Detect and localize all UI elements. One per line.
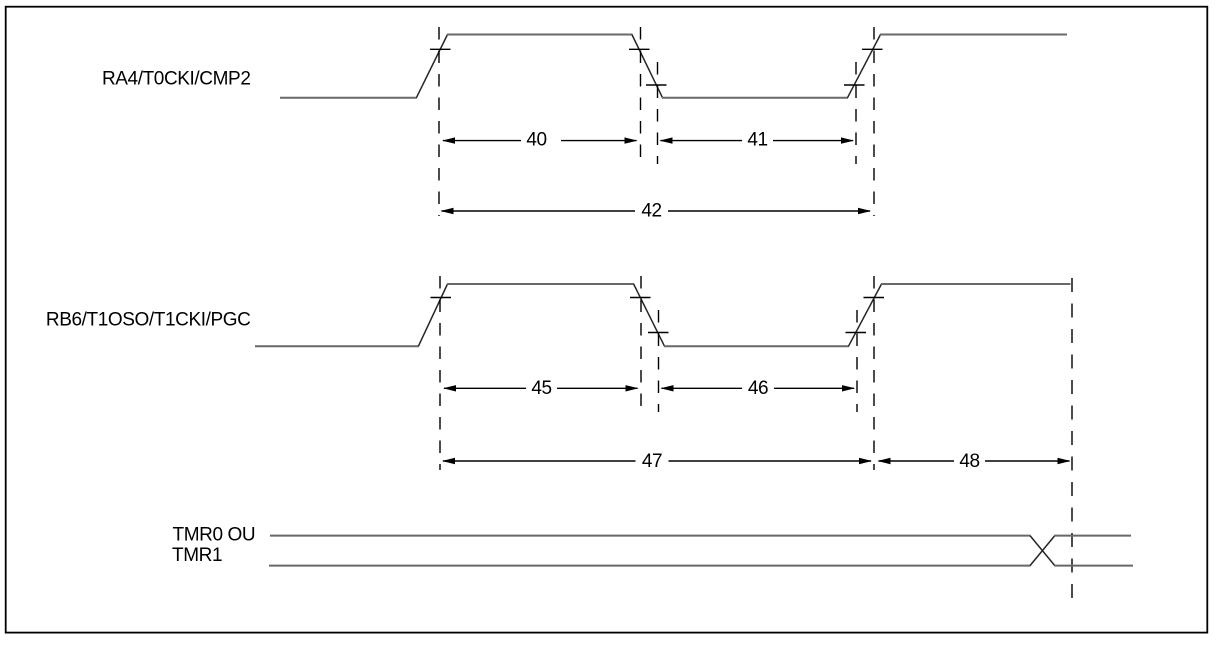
dashed reference line A (x=439, waveform 1): [438, 27, 440, 216]
dimension arrow 48: [878, 451, 1071, 472]
svg-text:RA4/T0CKI/CMP2: RA4/T0CKI/CMP2: [102, 69, 251, 90]
tick: rise2 upper threshold (waveform 2): [864, 297, 885, 299]
wire: TMR0 line after crossover: [1054, 535, 1131, 537]
wire: RB6 high segment 2: [881, 283, 1071, 285]
tick: fall upper threshold (waveform 2): [630, 297, 651, 299]
wire: RB6 falling edge: [634, 284, 665, 346]
svg-text:46: 46: [748, 378, 768, 399]
svg-text:47: 47: [642, 451, 662, 472]
tick: rise2 lower threshold (waveform 2): [846, 332, 867, 334]
tick: fall lower threshold (waveform 2): [648, 332, 669, 334]
wire: TMR1 line after crossover: [1054, 565, 1133, 567]
svg-text:48: 48: [959, 451, 979, 472]
dashed reference line C (x=657.5, waveform 1): [657, 62, 659, 164]
dashed reference line E2 (x=874, waveform 2): [873, 276, 875, 470]
tick: rise1 upper threshold (waveform 1): [430, 48, 451, 50]
svg-text:TMR0 OU: TMR0 OU: [173, 525, 256, 546]
tick: rise2 upper threshold (waveform 1): [862, 48, 883, 50]
wire: RA4 rising edge 2: [848, 35, 881, 98]
wire: RB6/T1OSO/T1CKI/PGC waveform low segment 1: [255, 345, 419, 347]
dashed reference line B (x=640.5, waveform 1): [640, 27, 642, 164]
wire: RA4/T0CKI/CMP2 waveform low segment 1: [280, 97, 417, 99]
wire: RA4 high segment 2: [880, 34, 1067, 36]
wire: RB6 high segment 1: [447, 283, 634, 285]
wire: RA4 low segment 2: [662, 97, 848, 99]
dimension arrow 46: [661, 378, 856, 399]
wire: RB6 rising edge 2: [849, 284, 882, 346]
svg-text:41: 41: [747, 129, 767, 150]
dashed reference line C2 (x=658.5, waveform 2): [658, 310, 660, 412]
crossover X of TMR0/TMR1: [1030, 536, 1055, 566]
tick: fall upper threshold (waveform 1): [629, 48, 650, 50]
dimension arrow 41: [660, 129, 855, 150]
wire: TMR0 output line (top): [270, 535, 1030, 537]
tick: rise1 upper threshold (waveform 2): [431, 297, 452, 299]
dimension arrow 40: [442, 129, 638, 150]
dashed reference line F (x=1072, waveform 2 to TMR): [1071, 278, 1073, 606]
svg-text:45: 45: [531, 378, 551, 399]
dashed reference line D (x=856, waveform 1): [855, 62, 857, 164]
wire: RA4 rising edge 1: [416, 35, 447, 98]
dashed reference line B2 (x=641, waveform 2): [640, 276, 642, 412]
svg-text:RB6/T1OSO/T1CKI/PGC: RB6/T1OSO/T1CKI/PGC: [46, 310, 251, 331]
dimension arrow 45: [443, 378, 639, 399]
svg-text:40: 40: [526, 129, 546, 150]
dimension arrow 42: [441, 201, 872, 222]
dashed reference line E (x=874, waveform 1): [873, 27, 875, 216]
wire: RA4 falling edge: [632, 35, 663, 98]
wire: RB6 low segment 2: [664, 345, 849, 347]
svg-text:TMR1: TMR1: [172, 545, 222, 566]
dimension arrow 47: [442, 451, 872, 472]
wire: RB6 rising edge 1: [418, 284, 447, 346]
dashed reference line D2 (x=857, waveform 2): [856, 310, 858, 412]
tick: fall lower threshold (waveform 1): [646, 84, 667, 86]
tick: rise2 lower threshold (waveform 1): [844, 84, 865, 86]
wire: TMR1 line (bottom): [269, 565, 1030, 567]
svg-text:42: 42: [641, 201, 661, 222]
wire: RA4 high segment 1: [447, 34, 632, 36]
dashed reference line A2 (x=440, waveform 2): [439, 276, 441, 470]
